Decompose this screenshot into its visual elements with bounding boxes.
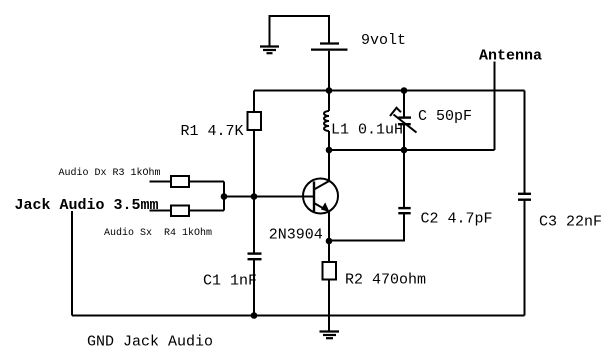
wire R4 right lead — [189, 210, 224, 212]
wire jack ground lead — [71, 211, 73, 316]
svg-text:C2 4.7pF: C2 4.7pF — [421, 211, 493, 228]
svg-text:Jack Audio 3.5mm: Jack Audio 3.5mm — [15, 197, 159, 214]
wire C3 to bottom rail — [524, 200, 526, 316]
svg-text:R2 470ohm: R2 470ohm — [345, 272, 426, 289]
resistor R1 — [248, 112, 262, 130]
node battery/top-rail — [326, 87, 333, 94]
svg-text:Antenna: Antenna — [479, 48, 542, 65]
wire emitter down — [328, 211, 330, 262]
svg-text:Audio Sx R4 1kOhm: Audio Sx R4 1kOhm — [104, 227, 212, 239]
svg-text:C1 1nF: C1 1nF — [203, 273, 257, 290]
node emitter/C2 — [326, 238, 333, 245]
wire collector to mid rail — [328, 150, 330, 181]
wire antenna lead — [494, 62, 496, 151]
wire top rail — [254, 90, 525, 92]
inductor L1 — [324, 91, 329, 151]
wire C50pF bottom to C2 — [403, 150, 405, 208]
resistor R4 — [171, 206, 189, 217]
battery B1 9volt — [311, 44, 348, 50]
transistor Q1 2N3904 — [303, 179, 338, 214]
svg-text:C 50pF: C 50pF — [418, 108, 472, 125]
node L1/mid-rail — [326, 147, 333, 154]
svg-text:C3 22nF: C3 22nF — [539, 214, 602, 231]
capacitor C2 4.7pF — [398, 208, 410, 213]
capacitor C1 — [248, 254, 262, 260]
wire base lead — [224, 196, 314, 198]
svg-text:2N3904: 2N3904 — [269, 227, 323, 244]
wire R4 left lead — [150, 210, 172, 212]
capacitor C 50pF (variable) — [390, 91, 417, 151]
wire battery top loop — [270, 16, 330, 46]
ground (emitter) — [320, 332, 340, 339]
node C50pF/top-rail — [401, 87, 408, 94]
wire R3 left lead — [150, 181, 172, 183]
node base/C1 — [251, 193, 258, 200]
wire R3 right lead — [189, 181, 224, 183]
resistor R3 — [171, 176, 189, 187]
wire R1 branch top — [253, 91, 255, 113]
wire battery to top rail — [328, 51, 330, 91]
wire bracket R3/R4 join — [223, 182, 225, 211]
wire bottom rail — [72, 315, 525, 317]
wire C1 to bottom rail — [253, 259, 255, 315]
wire mid rail L1-bottom to antenna — [329, 149, 495, 151]
svg-text:GND Jack Audio: GND Jack Audio — [87, 334, 213, 351]
resistor R2 — [323, 262, 337, 280]
ground (battery) — [260, 47, 279, 54]
capacitor C3 22nF — [518, 194, 531, 200]
svg-text:Audio Dx R3 1kOhm: Audio Dx R3 1kOhm — [59, 167, 161, 179]
svg-text:L1 0.1uH: L1 0.1uH — [331, 122, 403, 139]
node C50pF/mid-rail — [401, 147, 408, 154]
wire C2 bottom to emitter — [329, 213, 404, 240]
node R3R4 join — [221, 193, 228, 200]
svg-text:R1 4.7K: R1 4.7K — [181, 123, 244, 140]
wire right branch to C3 — [524, 91, 526, 194]
node C1/bottom-rail — [251, 312, 258, 319]
wire R1 to C1 — [253, 130, 255, 254]
wire R2 to ground — [328, 280, 330, 332]
svg-text:9volt: 9volt — [361, 32, 406, 49]
